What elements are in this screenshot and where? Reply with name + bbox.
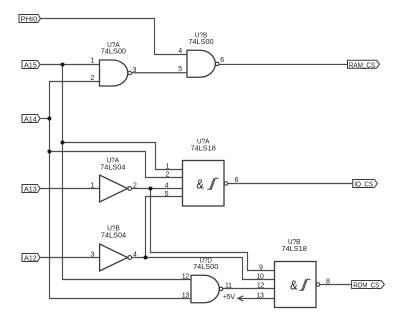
svg-text:+5V: +5V [223, 294, 235, 301]
svg-text:&: & [196, 176, 204, 191]
svg-text:74LS00: 74LS00 [188, 37, 213, 46]
svg-text:3: 3 [91, 252, 95, 259]
svg-text:13: 13 [256, 292, 264, 299]
svg-text:9: 9 [259, 264, 263, 271]
svg-text:3: 3 [133, 67, 137, 74]
svg-text:1: 1 [91, 183, 95, 190]
svg-text:4: 4 [165, 183, 169, 190]
svg-text:10: 10 [256, 273, 264, 280]
svg-text:RAM_CS: RAM_CS [349, 61, 375, 70]
svg-text:11: 11 [225, 283, 232, 290]
svg-text:6: 6 [220, 57, 224, 64]
svg-text:6: 6 [235, 177, 239, 184]
svg-text:A12: A12 [24, 254, 37, 263]
svg-text:74LS18: 74LS18 [282, 244, 307, 253]
svg-text:5: 5 [178, 66, 182, 73]
svg-text:4: 4 [178, 48, 182, 55]
svg-text:ROM_CS: ROM_CS [353, 281, 379, 290]
svg-text:4: 4 [133, 252, 137, 259]
svg-text:1: 1 [166, 164, 170, 171]
svg-text:2: 2 [91, 75, 95, 82]
svg-text:8: 8 [326, 278, 330, 285]
svg-text:A15: A15 [24, 61, 37, 70]
svg-text:74LS04: 74LS04 [100, 163, 125, 172]
svg-text:2: 2 [166, 172, 170, 179]
svg-text:2: 2 [133, 183, 137, 190]
svg-text:A13: A13 [24, 185, 37, 194]
svg-text:1: 1 [91, 58, 95, 65]
svg-text:74LS04: 74LS04 [101, 230, 126, 239]
svg-text:12: 12 [182, 273, 190, 280]
svg-text:&: & [290, 277, 298, 292]
svg-text:12: 12 [257, 283, 265, 290]
svg-text:74LS00: 74LS00 [193, 262, 218, 271]
svg-text:5: 5 [165, 191, 169, 198]
svg-text:PHI0: PHI0 [21, 15, 37, 24]
svg-text:IO_CS: IO_CS [354, 179, 373, 188]
svg-text:74LS18: 74LS18 [191, 144, 216, 153]
svg-text:A14: A14 [24, 115, 37, 124]
svg-text:74LS00: 74LS00 [101, 47, 126, 56]
svg-text:13: 13 [182, 292, 190, 299]
